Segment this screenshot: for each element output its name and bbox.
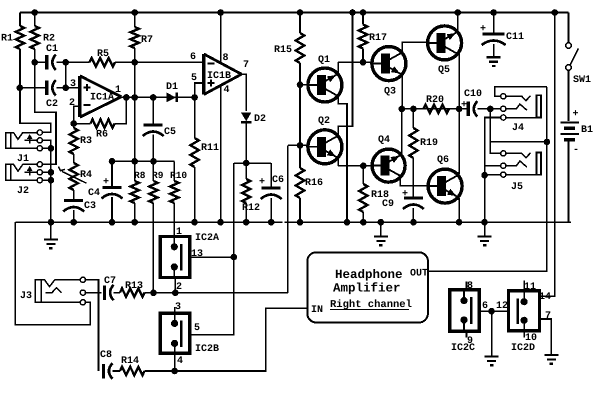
svg-text:C5: C5 [164,127,176,138]
node D1-pin5 [191,94,198,101]
wire R6 left stub [74,123,91,125]
svg-text:10: 10 [525,333,537,344]
node top rail pin8 [217,9,224,16]
wire R2 node to J2 tip [35,62,56,164]
wire R7col output to R8 [134,62,136,97]
wire C5 bottom [152,135,154,162]
wire R19 top stub [412,109,414,128]
wire V+ top rail [20,12,569,14]
wire R12-C6 node line [234,162,271,164]
op-amp IC1A [80,76,122,117]
svg-text:R2: R2 [43,34,55,45]
node top rail R2 [31,9,38,16]
node top rail drop [349,9,356,16]
resistor R2 [31,13,39,63]
svg-text:D1: D1 [166,82,178,93]
transistor Q2 [308,130,342,164]
svg-text:8: 8 [467,281,473,292]
node top rail C11 [490,9,497,16]
wire rail drop Q2 collector [338,13,352,138]
wire pin10 stub [523,331,525,338]
node R16 rail [297,219,304,226]
node R19 top [410,106,417,113]
svg-text:R20: R20 [426,95,444,106]
diode D2 [241,113,251,123]
svg-text:B1: B1 [581,125,593,136]
wire R15 bottom [299,63,301,85]
wire SW1 to B1 [568,70,570,121]
node R18 rail [360,219,367,226]
resistor R3 [70,128,78,154]
wire R5 line to IC1B pin6 [66,61,90,63]
connector J2 [6,162,43,183]
svg-text:R1: R1 [1,34,13,45]
svg-text:6: 6 [190,52,196,63]
node R9 top [150,158,157,165]
wire C4 top [111,161,113,186]
potentiometer R4 [59,163,87,190]
wire IC1A output line [121,96,194,98]
resistor R12 [242,179,250,203]
wire out node down [489,109,491,142]
wire IC2A pin2 down [174,278,176,293]
svg-text:+: + [573,109,579,120]
svg-text:IC1A: IC1A [90,93,114,104]
svg-text:3: 3 [175,302,181,313]
svg-text:C7: C7 [104,276,116,287]
node Q5c-C10 [456,106,463,113]
node Q6 rail [456,219,463,226]
svg-text:5: 5 [194,323,200,334]
wire C2 right [57,87,80,89]
resistor R11 [190,138,198,167]
node top rail R17 [360,9,367,16]
node pin4 [171,368,178,375]
wire Q2 base [300,144,308,146]
wire pin11 stub [523,280,525,291]
wire Q4 collector up [400,109,403,155]
wire IC1B pin5 stub [195,83,204,97]
svg-text:IC1B: IC1B [207,71,231,82]
svg-text:R8: R8 [134,170,146,181]
svg-text:-: - [573,145,579,156]
ground symbol pin7 [544,355,558,364]
wire Q6 emitter down [457,199,459,222]
wire C5 top [152,97,154,123]
svg-text:Q3: Q3 [384,87,396,98]
svg-text:R12: R12 [242,203,260,214]
wire jacks ground column [484,175,486,222]
node R11 rail [191,219,198,226]
node output-R7col [131,94,138,101]
svg-text:Q1: Q1 [318,55,330,66]
wire C3 bottom [73,210,75,222]
wire pin8 stub [466,282,468,290]
capacitor C2 [47,80,56,96]
resistor R7 [131,27,139,48]
svg-text:+: + [402,189,408,200]
wire jack ground column [50,148,52,222]
svg-text:R13: R13 [125,281,143,292]
capacitor C11 [482,34,506,45]
node C1-R5 [62,59,69,66]
capacitor C4 [102,188,123,199]
svg-text:Amplifier: Amplifier [333,282,401,296]
node C2 left [17,85,24,92]
svg-text:4: 4 [177,356,183,367]
svg-text:3: 3 [70,79,76,90]
transistor Q3 [372,47,406,81]
analog switch IC2C [450,290,480,331]
wire C7-R13 [114,292,121,294]
wire pin3 stub [174,307,176,313]
wire J5 tip loop [490,142,501,154]
wire C11 top [493,13,495,33]
wire R17 bottom [362,49,364,63]
svg-text:Headphone: Headphone [335,268,403,282]
resistor R14 [120,367,145,375]
svg-text:Q4: Q4 [378,135,390,146]
wire R10 bottom to IC2A pin1 [173,203,175,237]
node J2 sleeve [48,177,55,184]
wire Q3 collector to Q5 base [402,42,428,53]
wire R14 to box IN [145,308,308,371]
svg-text:OUT: OUT [410,269,428,280]
connector J1 [6,130,43,151]
wire R3-R4 [73,154,75,163]
svg-text:IC2A: IC2A [195,233,219,244]
wire top rail right drop to SW1 [568,13,570,43]
wire R7 column [134,13,136,28]
resistor R15 [296,33,304,63]
wire ctl down to IC2B pin5 [190,257,234,335]
capacitor C10 [468,101,477,117]
node J1 sleeve [48,145,55,152]
wire J4 sleeve to ground col [485,118,501,176]
svg-text:C4: C4 [88,188,100,199]
node C3 rail [70,219,77,226]
capacitor C8 [103,363,112,379]
wire R13 right [145,292,154,294]
wire R12 bottom [245,203,247,222]
wire J2 sleeve [42,179,51,181]
svg-text:+: + [480,24,486,35]
ground symbol left [44,222,58,248]
wire R15-R16 link [299,85,301,146]
svg-text:C2: C2 [46,99,58,110]
wire output col down to R8 top [134,97,136,161]
svg-text:R4: R4 [80,170,92,181]
svg-text:R7: R7 [141,35,153,46]
svg-text:C10: C10 [464,89,482,100]
wire R8 top [134,161,136,181]
ground symbol IC2C [485,311,499,365]
wire pin14 to rail [540,13,555,297]
wire R8 bottom [134,203,136,222]
resistor R16 [296,168,304,198]
analog switch IC2A [160,237,190,278]
resistor R6 [91,119,115,127]
wire C10 right [478,108,502,110]
svg-text:6: 6 [482,301,488,312]
connector J3 [35,277,85,305]
svg-text:14: 14 [539,292,551,303]
resistor R19 [409,128,417,158]
svg-text:R19: R19 [420,138,438,149]
wire Q2emitter-R18-Q4 line [338,165,372,167]
node Q2 base [297,142,304,149]
node out vertical [544,139,551,146]
wire Q1 emitter up [337,62,340,75]
svg-text:8: 8 [223,53,229,64]
wire C4 bottom [111,197,113,222]
wire Q4 emitter to Q6 base [400,176,428,186]
wire Q5 collector down [457,53,459,109]
svg-text:R5: R5 [97,49,109,60]
wire D2 to node [245,122,247,163]
wire R18 bottom [362,212,364,222]
wire IC1A pin2 stub [74,106,80,123]
svg-text:IC2D: IC2D [511,343,535,354]
diode D1 [167,93,177,103]
svg-text:SW1: SW1 [573,75,591,86]
wire R16 top [299,145,301,168]
resistor R18 [359,184,367,212]
svg-text:J3: J3 [20,291,32,302]
svg-text:7: 7 [545,311,551,322]
wire C9 bottom [412,208,414,222]
svg-text:C8: C8 [100,350,112,361]
wire IC1B pin4 to rail [220,85,222,223]
wire R17 top [362,13,364,25]
svg-text:IN: IN [311,305,323,316]
node jack ground rail [48,219,55,226]
wire R10 top [173,161,175,181]
wire R18 top stub [362,166,364,184]
resistor R17 [359,25,367,49]
node C9 rail [410,219,417,226]
wire OUT to jacks [428,87,547,272]
wire J4 tip loop [495,87,547,96]
wire R7 bottom [134,48,136,62]
resistor R1 [16,13,24,88]
node C1 left [31,59,38,66]
svg-text:+: + [259,177,265,188]
wire IC1B pin8 [220,13,222,64]
wire R20 line [402,108,467,110]
wire R11 bottom [194,167,196,222]
wire Q1-R17-Q3 line [338,61,372,63]
node pin13-ctl [231,254,238,261]
transistor Q1 [308,68,342,102]
svg-text:Q6: Q6 [437,155,449,166]
node C4 rail [109,219,116,226]
svg-text:J4: J4 [512,123,524,134]
connector J5 [501,151,541,177]
wire C1 right [57,61,66,63]
svg-text:J5: J5 [511,182,523,193]
svg-text:R16: R16 [305,178,323,189]
node jacks ground rail [481,219,488,226]
svg-text:R9: R9 [152,170,164,181]
wire R9 top [152,161,154,181]
node C6 rail [268,219,275,226]
wire IC2B pin4 down [174,353,176,371]
node C5 top [150,94,157,101]
node ground mid rail [378,219,385,226]
svg-text:11: 11 [524,282,536,293]
svg-text:R14: R14 [121,356,139,367]
wire Q5 emitter to rail [456,13,459,34]
ground symbol C11 [487,57,501,66]
transistor Q4 [372,149,405,182]
wire IC1B output [242,74,247,111]
node R8 top [131,158,138,165]
svg-text:R15: R15 [274,45,292,56]
wire C8-R14 [112,370,120,372]
capacitor C5 [143,125,164,136]
wire J1 ring-sleeve join [42,140,51,148]
wire long vertical to rail [346,126,348,222]
svg-text:R6: R6 [96,130,108,141]
svg-text:J2: J2 [17,186,29,197]
wire R11 top [194,97,196,138]
wire Q3 emitter down [401,75,404,109]
svg-text:1: 1 [115,85,121,96]
ground symbol right jacks [478,222,492,245]
wire rail left end to J3 sleeve [15,222,90,324]
node D2-R12 [243,160,250,167]
wire R16 bottom [299,198,301,222]
wire pin9 stub [466,331,468,337]
svg-text:IC2B: IC2B [195,344,219,355]
svg-text:4: 4 [224,85,230,96]
node pin4 rail [217,219,224,226]
ground symbol middle [374,222,388,245]
wire J1 sleeve [42,147,51,149]
node pin6-12 [488,308,495,315]
wire C1 node down to C2 node [65,62,67,88]
wire J3 tip to C8 line [85,280,98,371]
wire C6 top [270,163,272,186]
svg-text:D2: D2 [254,114,266,125]
node R8 rail [131,219,138,226]
node top rail R15 [297,9,304,16]
svg-text:Q5: Q5 [438,65,450,76]
wire pin13 [190,256,234,258]
wire ground rail right [285,221,572,223]
svg-text:R18: R18 [371,190,389,201]
svg-text:9: 9 [467,336,473,347]
wire input line pin2 [153,292,287,294]
wire J5 sleeve [485,174,501,176]
node R5-R7 [131,59,138,66]
node C2-pin3 [62,85,69,92]
wire J2 ring [42,171,51,173]
node long vertical rail [344,219,351,226]
wire Q2base-pin2 vertical [287,145,289,292]
wire pin6-pin12 [479,310,508,312]
wire R9 bottom crosses rail [152,203,154,293]
svg-text:1: 1 [176,227,182,238]
resistor R10 [170,181,178,203]
svg-text:+: + [461,100,467,111]
node Q1 base [297,82,304,89]
wire C6 bottom [270,198,272,222]
wire C4-R8-R9-R10 node line [112,160,174,162]
svg-text:J1: J1 [17,154,29,165]
resistor R9 [149,181,157,203]
analog switch IC2D [509,291,540,331]
node R18 top [360,163,367,170]
svg-text:+: + [103,177,109,188]
svg-text:R11: R11 [201,143,219,154]
battery B1 [560,123,579,140]
capacitor C7 [105,285,114,301]
node R6 left [70,120,77,127]
wire R5 right [115,61,204,63]
node J2 ring [48,169,55,176]
svg-text:C3: C3 [84,201,96,212]
connector J4 [501,94,541,120]
wire R4-C3 [73,190,75,199]
capacitor C6 [261,188,282,199]
node Q3e-Q4c [399,106,406,113]
wire R1 node to J1 tip [20,88,51,133]
svg-text:R10: R10 [170,170,187,181]
wire J5 ring to ground col [485,165,501,167]
wire C2 left [20,87,46,89]
switch SW1 [566,43,579,71]
svg-text:R3: R3 [80,136,92,147]
wire Q2 base jog to pin2 line [288,144,300,146]
node R13-R9 [150,290,157,297]
node R12 rail [243,219,250,226]
wire out line to vertical [490,141,547,143]
node top rail R7 [131,9,138,16]
wire R6 right to output [115,97,127,123]
wire B1 to rail [568,140,570,223]
wire pin7 to ground [540,319,552,355]
resistor R5 [90,58,116,66]
wire R15 top [299,13,301,34]
capacitor C3 [63,201,84,212]
svg-text:C6: C6 [272,175,284,186]
wire C10node to J4 ring [490,108,501,110]
resistor R13 [120,288,145,296]
wire R3 top [73,124,75,128]
wire C7 left to J3 [85,292,101,294]
wire ground rail left [15,221,282,223]
svg-text:C11: C11 [506,32,524,43]
resistor R20 [424,105,450,113]
svg-text:Q2: Q2 [318,116,330,127]
svg-text:C1: C1 [46,44,58,55]
wire Q1 collector jog [338,95,348,127]
svg-text:7: 7 [243,60,249,71]
svg-text:13: 13 [191,249,203,260]
transistor Q5 [428,26,462,60]
transistor Q6 [428,169,462,203]
analog switch IC2B [160,313,190,353]
wire Q2 emitter down [337,157,340,166]
node top rail Q5 [454,9,461,16]
op-amp IC1B [204,54,242,95]
resistor R8 [131,181,139,203]
node C4 top [109,158,116,165]
label Right channel [330,299,412,311]
node C10 out [487,106,494,113]
